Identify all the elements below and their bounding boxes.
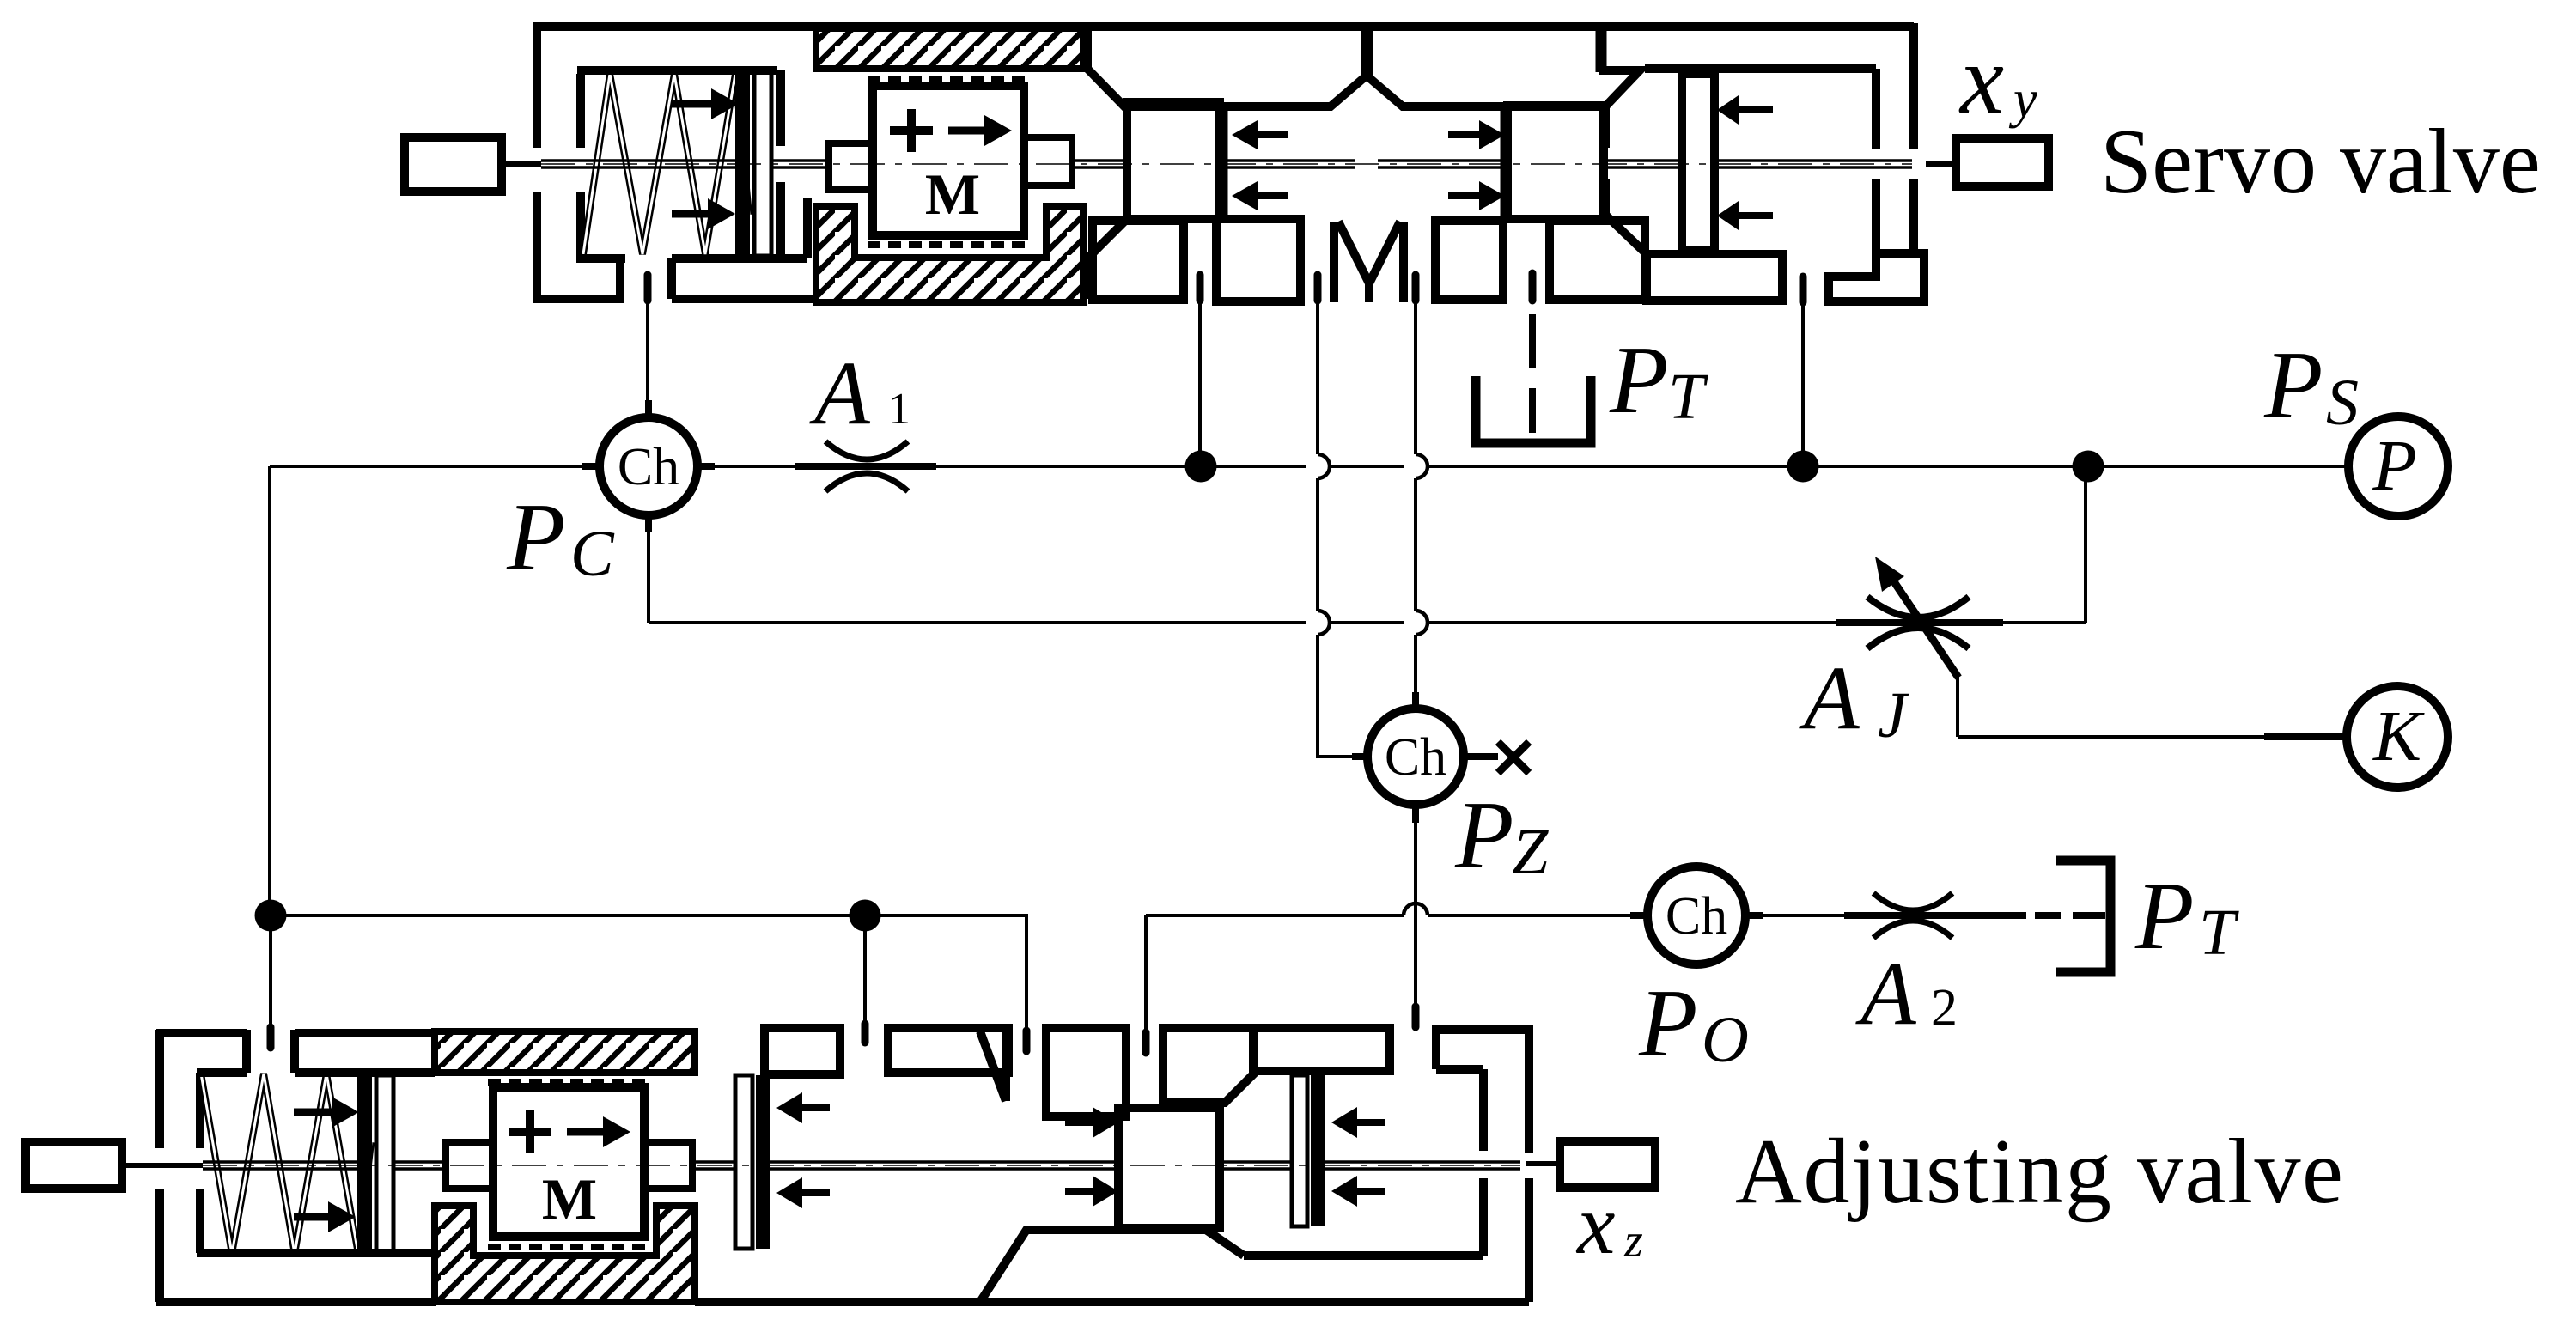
adj motor right terminal block xyxy=(644,1142,692,1189)
PZ port stub dash xyxy=(1412,1007,1420,1027)
wire: to gain block K xyxy=(1958,735,2347,739)
torque motor right terminal block xyxy=(1024,137,1072,186)
wire: servo port down to node N1 xyxy=(1198,292,1202,466)
servo valve outer top wall xyxy=(533,22,1914,31)
servo spool left piston plate (solid) xyxy=(735,72,750,256)
wire: bottom line N4 to N5 xyxy=(271,914,865,917)
diagonal to right chamber ceiling xyxy=(1599,70,1640,106)
adj top port box C xyxy=(1046,1028,1126,1116)
servo valve spring chamber inner left wall lower xyxy=(576,192,585,255)
spool land L2 xyxy=(1507,106,1604,219)
arrow into right piston upper xyxy=(1739,106,1773,113)
adj spring arrow upper xyxy=(294,1109,333,1116)
wall at right of mid chamber (lower) xyxy=(1605,179,1647,254)
torque motor left terminal block xyxy=(829,143,873,190)
adj shaft segment 2 xyxy=(393,1162,446,1169)
wire: PS line between hops xyxy=(1330,465,1404,468)
svg-text:Ch: Ch xyxy=(618,438,679,496)
adj top port box D xyxy=(1163,1028,1253,1103)
torque motor top hatched band xyxy=(816,28,1083,69)
wall at right of mid chamber (upper) xyxy=(1601,106,1610,148)
wire: Ch1 bottom down xyxy=(647,515,650,623)
torque motor direction arrow xyxy=(948,127,984,135)
servo valve bottom-left outer wall xyxy=(533,258,620,299)
wire: riser from AJ line up to node N3 xyxy=(2084,466,2087,623)
right end piston plate xyxy=(1682,74,1714,251)
orifice AJ thick line segment xyxy=(1836,619,2003,626)
svg-text:M: M xyxy=(542,1166,597,1232)
supply pressure gauge P circle xyxy=(2348,417,2448,516)
right chamber inner right wall upper xyxy=(1872,69,1880,149)
adj motor left terminal block xyxy=(446,1142,493,1189)
hop of bottom line over PZ drop xyxy=(1404,903,1428,915)
adj valve spring chamber bottom wall xyxy=(197,1249,436,1257)
wire: PC branch hop to AJ xyxy=(1428,621,1836,624)
torque motor plus sign xyxy=(890,109,933,152)
wire: PS line N1 to hop1 xyxy=(1201,465,1306,468)
mid chamber floor left funnel xyxy=(1087,222,1124,299)
adj motor bottom dotted liner xyxy=(488,1244,649,1250)
svg-text:O: O xyxy=(1702,1004,1749,1076)
adj motor top dotted liner xyxy=(488,1079,649,1086)
orifice AJ bottom arc xyxy=(1867,628,1969,648)
arrow into adj right piston lower xyxy=(802,1189,830,1196)
wire: servo drain port down to node N2 xyxy=(1801,296,1805,466)
svg-text:1: 1 xyxy=(888,385,910,434)
mid chamber ceiling right of notch xyxy=(1367,76,1605,106)
adj shaft segment 4 xyxy=(770,1162,1118,1169)
arrow into adj land lower xyxy=(1065,1188,1093,1195)
servo valve right outer wall (lower) xyxy=(1909,179,1918,253)
svg-text:K: K xyxy=(2372,696,2425,776)
adj input rod link xyxy=(122,1163,203,1168)
adj shaft segment 1 xyxy=(203,1162,357,1169)
adj valve spring chamber top wall left xyxy=(197,1068,247,1077)
tank T2 symbol (opens left) xyxy=(2056,861,2110,972)
gain block K circle xyxy=(2347,686,2448,788)
svg-text:P: P xyxy=(1638,970,1697,1077)
adj far right piston (outline) xyxy=(1292,1075,1307,1226)
adj valve bottom trapezoid base xyxy=(980,1230,1244,1302)
right end base box xyxy=(1647,254,1782,301)
adj right end outer right wall lower xyxy=(1525,1178,1533,1302)
arrow into adj right piston upper xyxy=(802,1104,830,1111)
svg-text:P: P xyxy=(2134,863,2194,970)
servo valve inner wall right of spring chamber (lower) xyxy=(776,182,785,258)
torque motor bottom dotted liner xyxy=(868,241,1029,248)
Ch2 bottom port stub xyxy=(1412,805,1419,823)
wire: PC branch line horizontal xyxy=(649,621,1306,624)
bottom port box B3 xyxy=(1435,221,1503,300)
nozzle flapper (M shape) xyxy=(1334,222,1404,302)
adj nozzle flapper wedge xyxy=(980,1028,1006,1101)
pressure arrow into L2 upper xyxy=(1448,131,1479,138)
junction node N5 xyxy=(850,900,881,932)
bottom port box B2 xyxy=(1216,219,1300,301)
adj right end box left wall xyxy=(1432,1025,1440,1069)
adj spool land xyxy=(1118,1108,1220,1228)
orifice A1 top arc xyxy=(825,441,908,459)
adj right end inner wall upper xyxy=(1479,1069,1488,1151)
adj input rod block xyxy=(26,1142,122,1189)
closed port X symbol xyxy=(1498,742,1529,773)
svg-text:z: z xyxy=(1623,1214,1643,1268)
adj motor direction arrow xyxy=(567,1128,603,1136)
wire: PC left riser x=314 xyxy=(268,466,271,915)
arrow into right piston lower xyxy=(1739,212,1773,219)
Ch1 top port stub xyxy=(645,400,652,417)
hop of x1534 over PC line xyxy=(1318,611,1330,635)
junction node N1 xyxy=(1185,451,1217,483)
spool shaft segment 1 xyxy=(541,161,735,167)
chamber separator stub xyxy=(1596,27,1607,72)
adj spool left piston plate (solid) xyxy=(357,1075,372,1252)
adj motor plus sign xyxy=(509,1110,551,1153)
svg-text:Z: Z xyxy=(1512,816,1549,888)
orifice A1 thick line segment xyxy=(795,463,936,470)
port stub dash at x=1007 xyxy=(862,1024,869,1043)
wire: servo pilot port down to Ch1 xyxy=(646,292,649,414)
wire: x=1534 between lines xyxy=(1316,478,1319,611)
Ch2 right port stub xyxy=(1464,753,1498,760)
adj spring coil xyxy=(201,1074,371,1254)
orifice A1 bottom arc xyxy=(825,473,908,491)
hop of x1648 over PS line xyxy=(1416,454,1428,478)
Ch3 right port stub xyxy=(1745,912,1763,919)
adj valve top wall segment right of gap xyxy=(295,1029,435,1037)
tank T1 symbol under servo valve xyxy=(1476,376,1591,443)
arrow into adj land upper xyxy=(1065,1119,1093,1126)
adj valve port box left wall xyxy=(290,1030,299,1073)
svg-text:P: P xyxy=(2263,332,2323,439)
wire: PS line hop2 to node N2 xyxy=(1428,465,1803,468)
xz feedback block xyxy=(1560,1141,1655,1188)
adj shaft segment 6 xyxy=(1325,1162,1520,1169)
variable orifice AJ arrow shaft xyxy=(1890,575,1958,678)
thick stub near K xyxy=(2264,733,2347,740)
right end foot bracket xyxy=(1829,253,1924,301)
port stub dash at x=1334 xyxy=(1142,1032,1150,1053)
port stub dash at x=1195 xyxy=(1023,1031,1031,1051)
wire: PS line A1 to node N1 xyxy=(936,465,1201,468)
check valve Ch3 circle (PO) xyxy=(1647,867,1745,964)
servo valve chamber floor right of pilot port xyxy=(672,198,807,299)
wire: AJ arrow tail down xyxy=(1956,674,1959,737)
adj output rod xyxy=(1526,1161,1563,1166)
svg-text:C: C xyxy=(570,518,615,590)
adj top port box B xyxy=(888,1028,1008,1073)
variable orifice AJ arrowhead xyxy=(1875,557,1904,592)
Ch1 bottom port stub xyxy=(645,515,652,532)
servo valve left outer wall (above rod gap) xyxy=(533,23,541,148)
wire: bottom line hop3 to Ch3 xyxy=(1428,914,1647,917)
ceiling V-notch stub xyxy=(1361,27,1373,79)
adj motor top hatched band xyxy=(435,1031,695,1073)
arrow into far right piston upper xyxy=(1357,1119,1385,1126)
servo spool left piston plate (outline) xyxy=(754,72,771,256)
adj valve bottom wall xyxy=(695,1298,1529,1306)
spring force arrow upper xyxy=(672,100,713,108)
spring force arrow lower xyxy=(672,210,708,218)
adj valve spring chamber top wall right xyxy=(295,1068,435,1077)
servo valve spring chamber top wall xyxy=(577,66,777,75)
adj far right piston (solid) xyxy=(1311,1075,1325,1226)
adj valve spring chamber inner left wall lower xyxy=(196,1189,204,1253)
svg-text:P: P xyxy=(2372,426,2416,506)
svg-text:M: M xyxy=(925,161,980,227)
spool land L1 xyxy=(1127,102,1220,219)
svg-text:y: y xyxy=(2008,70,2037,129)
adj valve left port box right wall xyxy=(242,1030,251,1073)
input rod block (left) xyxy=(405,137,502,192)
adj motor bottom hatched saddle xyxy=(435,1206,695,1302)
adj right piston plate (solid) xyxy=(756,1075,770,1249)
bottom port box B4 xyxy=(1550,221,1645,300)
wire: N4 down into adjusting valve xyxy=(269,915,272,1027)
adj valve top-left outer wall xyxy=(156,1029,247,1037)
junction node N2 xyxy=(1787,451,1819,483)
wire: PS line N2 to node N3 xyxy=(1803,465,2088,468)
servo valve inner wall right of spring chamber (upper) xyxy=(776,70,785,146)
servo valve bottom wall under motor section xyxy=(672,295,818,303)
input rod link wire xyxy=(502,161,541,167)
servo valve spring chamber inner left wall upper xyxy=(576,74,585,148)
port stub dash at x=2099 xyxy=(1800,277,1807,302)
svg-text:Servo valve: Servo valve xyxy=(2100,111,2541,213)
adj right end inner wall lower xyxy=(1479,1178,1488,1256)
port stub dash at x=1534 xyxy=(1314,275,1322,301)
orifice A2 top arc xyxy=(1873,893,1952,910)
svg-text:x: x xyxy=(1575,1177,1615,1272)
port stub dash at x=1648 xyxy=(1412,275,1420,301)
svg-text:x: x xyxy=(1958,25,2004,134)
torque motor M1 box xyxy=(873,86,1024,235)
spool shaft segment 2 xyxy=(771,161,830,167)
adj right chamber floor xyxy=(1244,1251,1483,1260)
adj valve left outer wall (lower) xyxy=(155,1189,164,1302)
Ch1 left port stub xyxy=(582,463,600,470)
Ch2 left port stub xyxy=(1352,753,1369,760)
wire: PC branch between hops xyxy=(1331,621,1404,624)
wire: PS line Ch1 to A1 xyxy=(697,465,795,468)
junction node N3 xyxy=(2073,451,2104,483)
torque motor top dotted liner xyxy=(868,76,1029,82)
wire: vertical drop x=1648 from servo valve xyxy=(1414,292,1417,454)
check valve Ch1 circle xyxy=(600,417,697,515)
svg-text:T: T xyxy=(1668,361,1708,433)
Ch2 top port stub xyxy=(1412,692,1419,709)
mid chamber ceiling left funnel xyxy=(1087,27,1367,106)
adj shaft segment 3 xyxy=(692,1162,735,1169)
wire: bottom line N5 to corner x=1195 xyxy=(865,915,1026,1031)
svg-text:Adjusting valve: Adjusting valve xyxy=(1735,1121,2344,1223)
orifice A2 bottom arc xyxy=(1873,921,1952,938)
svg-text:P: P xyxy=(1454,782,1513,889)
svg-text:J: J xyxy=(1878,679,1909,751)
wire: AJ to riser corner xyxy=(2003,621,2086,624)
Ch3 left port stub xyxy=(1630,912,1647,919)
bottom port box B1 xyxy=(1093,221,1184,300)
right chamber inner right wall lower xyxy=(1872,179,1880,253)
adj valve bottom-left outer wall xyxy=(156,1298,436,1306)
servo valve left outer wall (below rod gap) xyxy=(533,192,541,299)
dashed drain line into tank T1 xyxy=(1529,273,1537,301)
adj spring arrow lower xyxy=(294,1213,330,1221)
wire: N5 down into adjusting valve xyxy=(863,915,867,1024)
arrow into far right piston lower xyxy=(1357,1188,1385,1195)
svg-text:P: P xyxy=(506,484,565,591)
check valve Ch2 circle (middle) xyxy=(1367,709,1464,805)
wire: PS line N3 to P gauge xyxy=(2088,465,2348,468)
svg-text:A: A xyxy=(809,343,871,443)
adj top wide box E xyxy=(1253,1028,1390,1071)
pressure arrow into L1 lower xyxy=(1258,192,1288,199)
junction node N4 (left bottom) xyxy=(255,900,287,932)
wire: vertical drop x=1534 from servo valve xyxy=(1316,292,1319,454)
spool shaft segment 6 xyxy=(1714,161,1912,167)
spool shaft segment 4 xyxy=(1220,161,1507,167)
hop of x1648 over PC line xyxy=(1416,611,1428,635)
hop of x1534 over PS line xyxy=(1318,454,1330,478)
adj right end outer right wall upper xyxy=(1525,1025,1533,1153)
wire: corner x=1334 down to port xyxy=(1144,915,1148,1032)
svg-text:T: T xyxy=(2199,897,2239,969)
port stub dash at servo pilot port xyxy=(644,275,652,301)
spool shaft segment 5 xyxy=(1604,161,1682,167)
servo output rod xyxy=(1926,161,1958,167)
adj torque motor M2 box xyxy=(493,1087,644,1237)
port stub dash at x=315 xyxy=(267,1027,275,1048)
wire: x=1648 to Ch2 top xyxy=(1414,635,1417,692)
pressure arrow into L2 lower xyxy=(1448,192,1479,199)
xy feedback block xyxy=(1956,138,2049,186)
dashed line A2 to tank T2 xyxy=(2035,912,2105,919)
adj right end inner top xyxy=(1436,1065,1483,1074)
adj right end outer top xyxy=(1436,1025,1529,1034)
svg-text:S: S xyxy=(2326,367,2359,439)
adj shaft centerline xyxy=(203,1165,1520,1166)
orifice AJ top arc xyxy=(1867,597,1969,617)
svg-text:Ch: Ch xyxy=(1666,887,1727,946)
right chamber ceiling xyxy=(1645,64,1876,73)
servo valve right outer wall (upper) xyxy=(1909,23,1918,149)
adj shaft segment 5 xyxy=(1220,1162,1292,1169)
spring K1 coil xyxy=(583,74,749,254)
spool shaft segment 3 xyxy=(1072,161,1127,167)
Ch1 right port stub xyxy=(697,463,715,470)
wire: x=1534 down to Ch2 left xyxy=(1318,635,1367,757)
svg-text:A: A xyxy=(1799,648,1860,748)
orifice A2 thick line segment xyxy=(1844,912,2026,919)
wire: PS supply line left corner segment xyxy=(270,465,600,468)
spool shaft centerline xyxy=(541,163,1912,165)
pressure arrow into L1 upper xyxy=(1258,131,1288,138)
svg-text:2: 2 xyxy=(1931,979,1958,1037)
wire: bottom line x=1334 to hop3 xyxy=(1146,914,1404,917)
adj top port box A xyxy=(764,1028,840,1074)
svg-text:P: P xyxy=(1609,327,1668,434)
svg-text:Ch: Ch xyxy=(1385,728,1446,787)
adj valve spring chamber inner left wall upper xyxy=(196,1073,204,1148)
adj spool left piston plate (outline) xyxy=(376,1075,393,1252)
adj right piston plate (outline) xyxy=(735,1075,752,1249)
svg-text:A: A xyxy=(1855,943,1917,1043)
torque motor bottom hatched saddle xyxy=(816,206,1083,302)
adj valve left outer wall (upper) xyxy=(155,1030,164,1148)
wire: PZ line Ch2 down xyxy=(1414,805,1417,1025)
wire: Ch3 to A2 xyxy=(1745,914,1844,917)
port stub dash at x=1397 xyxy=(1197,275,1204,301)
wire: x=1648 between lines xyxy=(1414,478,1417,611)
